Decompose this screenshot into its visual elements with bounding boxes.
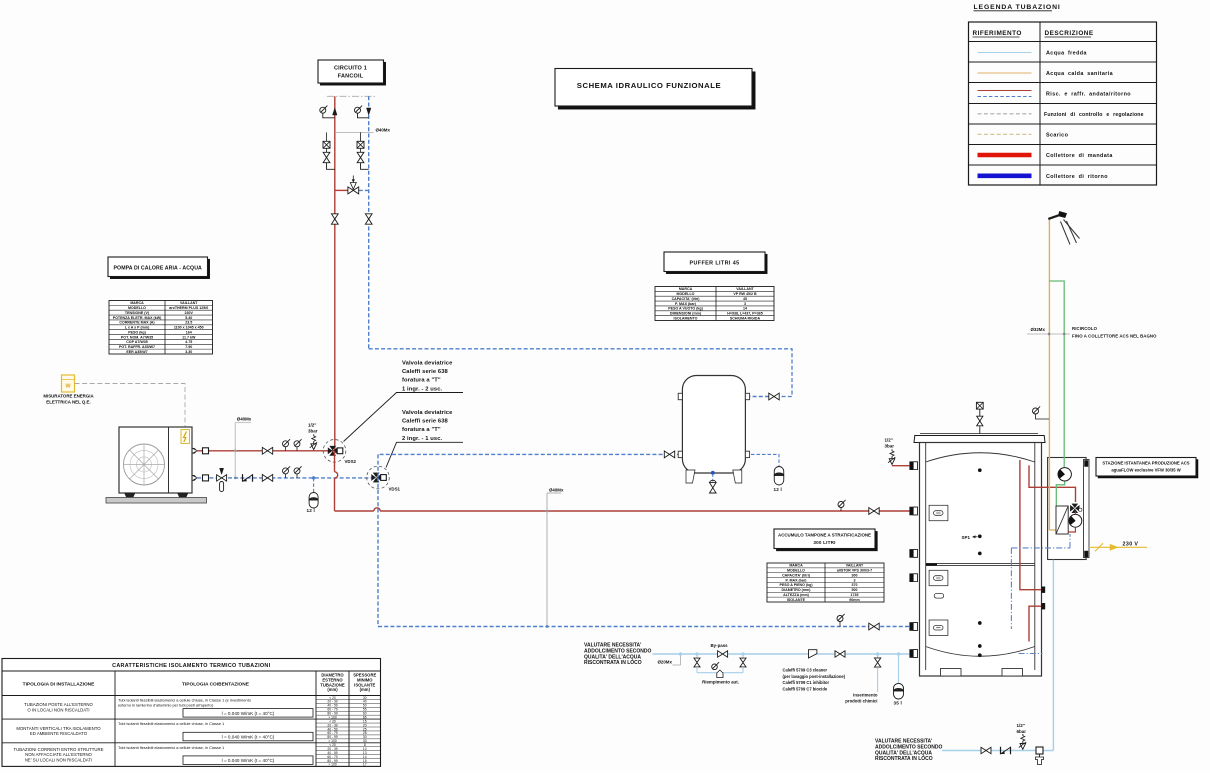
pipe fancoil return to puffer top (blue dashed) [369, 349, 792, 397]
svg-text:500: 500 [852, 588, 858, 592]
svg-text:MARCA: MARCA [130, 301, 144, 305]
temperature sensor on return main [837, 616, 843, 622]
svg-text:Ø40Mx: Ø40Mx [237, 417, 252, 422]
svg-text:3: 3 [854, 578, 856, 582]
svg-text:MISURATORE ENERGIA: MISURATORE ENERGIA [43, 394, 94, 399]
svg-text:(per lavaggio post-installazio: (per lavaggio post-installazione) [783, 674, 846, 679]
cold water line into station (dash-dot) [1011, 547, 1070, 549]
svg-text:SCHEMA IDRAULICO FUNZIONALE: SCHEMA IDRAULICO FUNZIONALE [577, 81, 721, 90]
svg-text:300: 300 [852, 573, 858, 577]
automatic filling unit [717, 670, 723, 678]
svg-text:CAPACITA' (litri): CAPACITA' (litri) [672, 297, 701, 301]
svg-text:RISCONTRATA IN LOCO: RISCONTRATA IN LOCO [875, 756, 933, 762]
svg-text:Tubi isolanti flessibili elast: Tubi isolanti flessibili elastomerici a … [118, 745, 224, 750]
heat pump feet [125, 493, 136, 498]
svg-text:CIRCUITO 1: CIRCUITO 1 [334, 66, 367, 72]
callout leader for VDS2 [344, 393, 464, 442]
motor valve + shutoff branch on return [360, 132, 362, 141]
temperature sensor on supply riser [320, 107, 326, 113]
label box PUFFER LITRI 45 [666, 254, 767, 274]
temperature sensor on supply main [838, 502, 844, 508]
svg-text:VAILLANT: VAILLANT [180, 301, 198, 305]
svg-text:RIFERIMENTO: RIFERIMENTO [973, 30, 1022, 37]
puffer drain dot and valve [711, 471, 715, 475]
svg-text:3: 3 [744, 302, 746, 306]
svg-text:MARCA: MARCA [679, 287, 693, 291]
svg-text:LEGENDA TUBAZIONI: LEGENDA TUBAZIONI [974, 4, 1061, 11]
heat pump outdoor unit [119, 427, 192, 493]
pipe cold water to ACS station (light blue) [1052, 560, 1054, 751]
svg-text:COP A7/W35: COP A7/W35 [126, 340, 148, 344]
legend table frame [969, 22, 1157, 185]
storage tank inner walls [925, 443, 927, 671]
check valve on station cold feed [1000, 747, 1002, 755]
svg-text:Collettore di ritorno: Collettore di ritorno [1046, 174, 1108, 180]
svg-text:370: 370 [852, 583, 858, 587]
diverter valve VDS1 (Caleffi 638, 2 in - 1 out) [367, 466, 390, 489]
temperature sensor on return riser [355, 107, 361, 113]
svg-text:RISCONTRATA IN LOCO: RISCONTRATA IN LOCO [584, 660, 642, 666]
power supply 230 V (yellow) [1089, 546, 1147, 548]
spec table accumulo (VAILLANT allSTOR VPS 300/3-7) [767, 563, 884, 602]
3-way mixing valve between risers [335, 189, 348, 191]
expansion vessel 35 l [897, 653, 900, 656]
temperature sensor on DHW riser [1033, 408, 1039, 414]
pipe fancoil supply riser (red) [334, 96, 336, 451]
svg-text:ALTEZZA (mm): ALTEZZA (mm) [783, 593, 810, 597]
expansion vessel 12 l at puffer [774, 467, 784, 486]
junction control line on supply main [546, 510, 548, 512]
svg-text:Scarico: Scarico [1046, 132, 1069, 138]
legend sample collettore di mandata (thick red) [978, 153, 1032, 158]
svg-text:CAPACITA' (litri): CAPACITA' (litri) [782, 573, 811, 577]
svg-text:POTENZA ELETR. MAX (kW): POTENZA ELETR. MAX (kW) [113, 316, 162, 320]
svg-text:RICIRCOLO: RICIRCOLO [1072, 326, 1098, 331]
flow arrow up on supply riser [333, 108, 337, 115]
electric meter icon (yellow) [62, 375, 75, 392]
pipe ricircolo (green) [1049, 281, 1064, 467]
svg-text:SCHIUMA RIGIDA: SCHIUMA RIGIDA [730, 316, 761, 320]
svg-text:230V: 230V [185, 311, 194, 315]
svg-text:TIPOLOGIA COIBENTAZIONE: TIPOLOGIA COIBENTAZIONE [182, 682, 250, 688]
svg-text:allSTOR VPS 300/3-7: allSTOR VPS 300/3-7 [837, 569, 872, 573]
shutoff valve on return main at tank [869, 623, 874, 630]
shutoff valve on station cold feed [981, 747, 986, 753]
legend sample funzioni di controllo (gray dashed) [978, 113, 1032, 115]
svg-text:MODELLO: MODELLO [787, 569, 805, 573]
svg-text:3.30: 3.30 [185, 350, 192, 354]
svg-text:ACCUMULO TAMPONE A STRATIFICAZ: ACCUMULO TAMPONE A STRATIFICAZIONE [778, 533, 871, 538]
ACS heat exchanger [1056, 506, 1068, 534]
label ricircolo O32Mx [1027, 333, 1070, 335]
shower head [1048, 214, 1062, 219]
svg-text:O IN LOCALI NON RISCALDATI: O IN LOCALI NON RISCALDATI [27, 707, 89, 712]
svg-text:PUFFER LITRI 45: PUFFER LITRI 45 [689, 261, 739, 267]
svg-text:90mm: 90mm [849, 598, 859, 602]
pipe puffer right port to expansion vessel (blue dashed) [751, 454, 779, 466]
svg-text:12 l: 12 l [307, 508, 315, 513]
label box ACCUMULO TAMPONE A STRATIFICAZIONE 300 LITRI [776, 531, 877, 551]
svg-text:Caleffi serie 638: Caleffi serie 638 [402, 369, 449, 375]
insulation table CARATTERISTICHE ISOLAMENTO TERMICO TUBAZIONI [2, 659, 381, 767]
svg-text:23.5: 23.5 [185, 321, 192, 325]
svg-text:Risc. e raffr. andata/ritorno: Risc. e raffr. andata/ritorno [1046, 92, 1131, 98]
connection fitting on return [192, 475, 197, 478]
flow arrow down on return riser [367, 108, 371, 115]
title box SCHEMA IDRAULICO FUNZIONALE [558, 72, 755, 110]
control line O40Mx vertical [234, 423, 236, 478]
svg-text:17: 17 [363, 763, 367, 767]
legend sample collettore di ritorno (thick blue) [978, 174, 1032, 179]
svg-text:NE’ SU LOCALI NON RISCALDATI: NE’ SU LOCALI NON RISCALDATI [25, 757, 92, 762]
svg-text:CORRENTE MAX (A): CORRENTE MAX (A) [119, 321, 155, 325]
shutoff valve on return riser [365, 214, 372, 219]
svg-text:300 LITRI: 300 LITRI [813, 540, 835, 545]
svg-text:11.7 kW: 11.7 kW [182, 335, 196, 339]
ACS station mixing valve [1070, 504, 1079, 513]
svg-text:Ø20Mx: Ø20Mx [658, 660, 673, 665]
svg-text:164: 164 [186, 330, 192, 334]
svg-text:l = 0.040 W/mK (t = 40°C): l = 0.040 W/mK (t = 40°C) [222, 758, 275, 763]
svg-text:Valvola deviatrice: Valvola deviatrice [402, 410, 453, 416]
svg-text:2 ingr. - 1 usc.: 2 ingr. - 1 usc. [402, 436, 443, 442]
svg-text:PESO A PIENO (kg): PESO A PIENO (kg) [779, 583, 813, 587]
storage tank bottom dish [926, 647, 1035, 657]
svg-text:esterno in lamierino d’allumin: esterno in lamierino d’alluminio per tub… [118, 702, 214, 707]
svg-text:TENSIONE (V): TENSIONE (V) [125, 311, 150, 315]
svg-text:MODELLO: MODELLO [128, 306, 146, 310]
temperature sensors on return [283, 468, 289, 474]
puffer ports [678, 393, 682, 399]
ACS station enclosure [1048, 458, 1087, 560]
legend sample acqua fredda (light blue) [978, 52, 1032, 54]
svg-text:1/2": 1/2" [1017, 723, 1025, 728]
tank internal pipe B (red) [1029, 606, 1043, 641]
connection fitting on supply [192, 448, 197, 451]
tank internal pipe to ACS station (red) [1029, 465, 1076, 502]
storage tank left ports [910, 462, 918, 470]
shutoff valve on supply [262, 447, 267, 454]
strainer filter on cold feed [809, 650, 817, 658]
red links inside station [1074, 512, 1076, 515]
svg-text:3bar: 3bar [308, 428, 318, 433]
storage tank top cap [914, 436, 1045, 443]
svg-text:Collettore di mandata: Collettore di mandata [1046, 153, 1113, 159]
svg-text:ISOLAMENTO: ISOLAMENTO [674, 316, 698, 320]
svg-text:VDS2: VDS2 [345, 459, 357, 464]
storage tank feet [941, 669, 962, 677]
svg-text:DIMENSIONI (mm): DIMENSIONI (mm) [670, 312, 702, 316]
svg-text:PESO (kg): PESO (kg) [128, 330, 146, 334]
check valve on return [242, 474, 244, 482]
heat pump electric box (yellow lightning) [181, 430, 190, 444]
spec table puffer (VAILLANT VP RW 45/2 B) [655, 287, 774, 321]
green connection inside station [1056, 482, 1064, 507]
svg-text:aroTHERM PLUS 125/6: aroTHERM PLUS 125/6 [169, 306, 208, 310]
svg-text:14: 14 [743, 307, 747, 311]
label box STAZIONE ISTANTANEA PRODUZIONE ACS aguaFLOW exclusive VFW 30/35 W [1098, 460, 1198, 479]
sensor dots in tank [978, 469, 981, 472]
svg-text:DESCRIZIONE: DESCRIZIONE [1045, 30, 1094, 37]
control line electric meter to heat pump (gray dashed) [75, 384, 186, 428]
sensor wells with pockets [929, 505, 948, 520]
label box POMPA DI CALORE ARIA - ACQUA [110, 259, 210, 279]
svg-text:MARCA: MARCA [789, 564, 803, 568]
svg-text:POMPA DI CALORE ARIA - ACQUA: POMPA DI CALORE ARIA - ACQUA [114, 266, 203, 272]
svg-text:aguaFLOW exclusive VFW 30/35 W: aguaFLOW exclusive VFW 30/35 W [1111, 468, 1180, 473]
svg-text:CARATTERISTICHE ISOLAMENTO TER: CARATTERISTICHE ISOLAMENTO TERMICO TUBAZ… [112, 663, 270, 669]
svg-text:l = 0.040 W/mK (t = 40°C): l = 0.040 W/mK (t = 40°C) [222, 735, 275, 740]
svg-text:1/2": 1/2" [308, 423, 316, 428]
svg-text:230 V: 230 V [1123, 542, 1139, 548]
pipe domestic hot water riser (orange) [1048, 219, 1050, 530]
svg-text:45: 45 [743, 297, 747, 301]
svg-text:By-pass: By-pass [711, 643, 729, 648]
spec table heat pump (MARCA VAILLANT aroTHERM) [109, 301, 213, 355]
svg-text:ED AMBIENTE RISCALDATO: ED AMBIENTE RISCALDATO [30, 731, 88, 736]
pipe heat pump return (blue dashed) [197, 477, 378, 479]
svg-text:P. MAX (bar): P. MAX (bar) [675, 302, 697, 306]
storage tank shell [920, 443, 1042, 677]
svg-text:3bar: 3bar [885, 444, 895, 449]
svg-text:H=938, L=437, P=365: H=938, L=437, P=365 [727, 312, 762, 316]
pipe puffer bottom to VDS1 (blue dashed) [378, 453, 675, 455]
svg-text:Inserimento: Inserimento [853, 693, 878, 698]
svg-text:VDS1: VDS1 [389, 487, 401, 492]
svg-text:1735: 1735 [851, 593, 859, 597]
svg-text:VAILLANT: VAILLANT [736, 287, 754, 291]
svg-text:(mm): (mm) [360, 687, 371, 692]
shutoff valve on supply riser [331, 214, 338, 219]
svg-text:(mm): (mm) [327, 687, 338, 692]
svg-text:DIAMETRO (mm): DIAMETRO (mm) [782, 588, 812, 592]
svg-text:1 ingr. - 2 usc.: 1 ingr. - 2 usc. [402, 386, 443, 392]
svg-text:1/2": 1/2" [885, 438, 893, 443]
svg-text:L x A x P (mm): L x A x P (mm) [125, 326, 150, 330]
shutoff valve on cold feed [835, 651, 840, 657]
svg-text:VAILLANT: VAILLANT [846, 564, 864, 568]
svg-text:TIPOLOGIA DI INSTALLAZIONE: TIPOLOGIA DI INSTALLAZIONE [23, 682, 95, 688]
svg-text:ELETTRICA NEL Q.E.: ELETTRICA NEL Q.E. [46, 399, 90, 404]
svg-text:6bar: 6bar [1017, 729, 1027, 734]
svg-text:POT. NOM. A7/W35: POT. NOM. A7/W35 [121, 335, 153, 339]
shutoff valve on bypass main [718, 651, 723, 657]
storage tank top dome [926, 453, 1035, 462]
svg-text:5.40: 5.40 [185, 316, 192, 320]
svg-text:Tubi isolanti flessibili elast: Tubi isolanti flessibili elastomerici a … [118, 721, 224, 726]
storage tank middle separator [926, 562, 1035, 564]
svg-text:Valvola deviatrice: Valvola deviatrice [402, 361, 453, 367]
tank internal cold water dash-dot (blue) [1010, 548, 1012, 629]
pipe heat pump supply (red) [197, 450, 335, 452]
svg-text:l = 0.040 W/mK (t = 40°C): l = 0.040 W/mK (t = 40°C) [222, 711, 275, 716]
svg-text:12 l: 12 l [774, 487, 782, 492]
shutoff valve on supply main at tank [869, 508, 874, 515]
svg-text:VP RW 45/2 B: VP RW 45/2 B [733, 292, 757, 296]
svg-text:Ø40Mx: Ø40Mx [376, 127, 391, 132]
svg-text:7.90: 7.90 [185, 345, 192, 349]
heat pump base platform [106, 498, 207, 504]
label box CIRCUITO 1 FANCOIL [320, 62, 386, 85]
svg-text:W: W [65, 384, 71, 390]
puffer legs [686, 470, 695, 483]
svg-text:STAZIONE ISTANTANEA PRODUZIONE: STAZIONE ISTANTANEA PRODUZIONE ACS [1102, 461, 1189, 466]
svg-text:1100 x 1045 x 450: 1100 x 1045 x 450 [174, 326, 204, 330]
svg-text:Funzioni di controllo e regola: Funzioni di controllo e regolazione [1044, 112, 1144, 118]
svg-text:FANCOIL: FANCOIL [338, 74, 364, 80]
diverter valve VDS2 (Caleffi 638, 1 in - 2 out) [323, 440, 346, 463]
svg-text:POT. RAFFR. A35/W7: POT. RAFFR. A35/W7 [119, 345, 155, 349]
chemical dosing branch [876, 653, 879, 656]
shutoff valve puffer bottom connection [664, 451, 669, 458]
svg-text:foratura a "T": foratura a "T" [402, 378, 441, 384]
ACS station pump 2 [1069, 514, 1082, 527]
svg-text:Acqua fredda: Acqua fredda [1046, 51, 1087, 57]
svg-text:MODELLO: MODELLO [677, 292, 695, 296]
svg-text:35 l: 35 l [894, 701, 902, 706]
motor valve + shutoff branch on supply [326, 132, 328, 141]
legend sample risc./raffr. andata (red) + ritorno (blue dashed) [978, 90, 1032, 92]
branch to expansion vessel 12 l (blue dashed) [313, 478, 315, 493]
ACS station pump 1 [1058, 468, 1071, 481]
junction dot return/expansion branch [312, 476, 315, 479]
pipe supply main VDS2 to storage tank (red) [334, 451, 336, 472]
svg-text:> 100: > 100 [328, 763, 337, 767]
svg-text:Riempimento aut.: Riempimento aut. [702, 679, 739, 684]
svg-text:foratura a "T": foratura a "T" [402, 427, 441, 433]
svg-text:Caleffi 5709 C7 biocide: Caleffi 5709 C7 biocide [783, 686, 828, 691]
storage tank top valve group [979, 427, 981, 434]
pipe fancoil return riser (blue dashed) [368, 96, 370, 348]
svg-text:P. MAX (bar): P. MAX (bar) [786, 578, 808, 582]
svg-text:Caleffi serie 638: Caleffi serie 638 [402, 419, 449, 425]
temperature sensors on supply [283, 441, 289, 447]
legend sample acqua calda sanitaria (orange) [978, 72, 1032, 74]
svg-text:SP1: SP1 [962, 535, 971, 540]
pipe cold water to tank (light blue) [652, 653, 909, 655]
svg-text:Caleffi 5709 C3 cleaner: Caleffi 5709 C3 cleaner [783, 668, 828, 673]
legend sample scarico (tan dashed) [978, 133, 1032, 135]
cold water feed into exchanger (dash-dot) [1069, 534, 1071, 548]
svg-text:ISOLANTE: ISOLANTE [787, 598, 806, 602]
expansion vessel 12 l [309, 493, 318, 509]
svg-text:EER A35/W7: EER A35/W7 [126, 350, 147, 354]
balance line with label O40Mx [335, 131, 374, 133]
control line dash-dot above fancoil circuit [327, 95, 376, 97]
water meter on bypass [712, 664, 718, 670]
svg-text:Ø40Mx: Ø40Mx [549, 488, 564, 493]
heat pump fan [124, 444, 165, 485]
callout leader for VDS1 [386, 442, 463, 467]
pipe VDS1 down to tank bottom (blue dashed) [377, 478, 379, 627]
drain fitting with hose union [1036, 747, 1043, 754]
svg-text:Acqua calda sanitaria: Acqua calda sanitaria [1046, 71, 1114, 77]
drain valve with hose union on return [220, 468, 224, 474]
svg-text:PESO A VUOTO (kg): PESO A VUOTO (kg) [668, 307, 703, 311]
svg-text:prodotti chimici: prodotti chimici [845, 699, 877, 704]
shutoff valve puffer top connection [769, 393, 774, 400]
svg-text:Ø32Mx: Ø32Mx [1031, 327, 1046, 332]
safety valve 1/2" 3bar at storage tank [892, 465, 910, 467]
puffer tank 45 l [682, 376, 745, 474]
svg-text:FINO A COLLETTORE ACS NEL BAGN: FINO A COLLETTORE ACS NEL BAGNO [1072, 334, 1157, 339]
shutoff valve on return [262, 475, 267, 482]
svg-text:4.75: 4.75 [185, 340, 192, 344]
tank internal pipe supply A (red) [1020, 460, 1043, 590]
svg-text:Caleffi 5709 C1 inhibitor: Caleffi 5709 C1 inhibitor [783, 680, 830, 685]
